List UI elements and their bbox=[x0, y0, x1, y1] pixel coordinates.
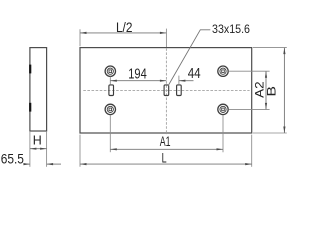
extension line side-right bbox=[46, 132, 48, 167]
extension lines B bbox=[253, 47, 287, 49]
extension lines L bbox=[79, 135, 81, 167]
svg-text:65.5: 65.5 bbox=[1, 150, 24, 166]
dimension L bbox=[80, 149, 252, 165]
side view lower nut mark bbox=[29, 103, 31, 112]
hole lower-left bbox=[105, 104, 115, 114]
extension lines A1 bbox=[109, 115, 111, 152]
dimension 194 bbox=[110, 66, 166, 82]
horizontal centerline bbox=[83, 89, 249, 91]
main plate outline bbox=[80, 48, 252, 133]
svg-text:L: L bbox=[162, 149, 167, 165]
leader 33x15.6 bbox=[168, 22, 250, 86]
hole lower-right bbox=[218, 104, 228, 114]
hole upper-left bbox=[105, 66, 115, 76]
dimension B bbox=[265, 48, 286, 133]
side view plate outline bbox=[30, 48, 47, 131]
vertical centerline bbox=[165, 29, 167, 47]
extension line 44 right slot bbox=[178, 76, 180, 85]
side view upper nut mark bbox=[29, 65, 31, 74]
extension line side-left bbox=[29, 132, 31, 167]
dimension 44 bbox=[179, 66, 201, 82]
dimension A2 bbox=[252, 71, 267, 109]
hole upper-right bbox=[218, 66, 228, 76]
svg-text:H: H bbox=[33, 134, 42, 148]
slot left bbox=[109, 85, 114, 96]
svg-text:44: 44 bbox=[188, 66, 201, 82]
svg-text:A1: A1 bbox=[160, 133, 171, 149]
svg-text:33x15.6: 33x15.6 bbox=[212, 22, 250, 36]
dimension 65.5 bbox=[1, 150, 61, 166]
slot middle bbox=[164, 85, 169, 96]
svg-text:B: B bbox=[265, 86, 279, 97]
svg-text:L/2: L/2 bbox=[116, 19, 133, 35]
dimension H bbox=[30, 134, 47, 150]
slot right bbox=[177, 85, 182, 96]
extension line 194 (from upper-left hole) bbox=[109, 77, 111, 85]
dimension L/2 bbox=[80, 19, 166, 35]
dimension A1 bbox=[110, 133, 223, 151]
extension line L/2 left bbox=[79, 29, 81, 46]
svg-text:194: 194 bbox=[128, 66, 147, 82]
extension lines A2 bbox=[229, 70, 270, 72]
